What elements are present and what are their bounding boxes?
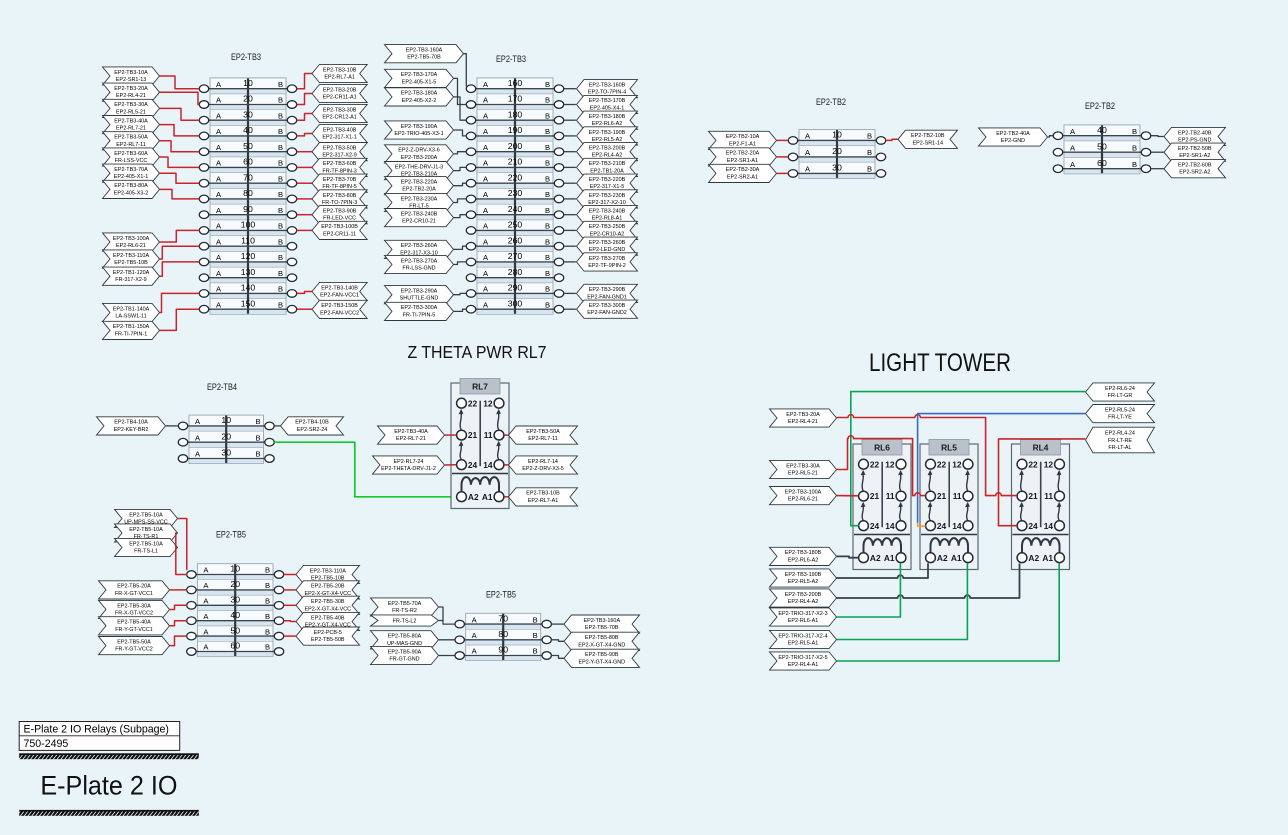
svg-text:EP2-TB5-10A: EP2-TB5-10A — [129, 527, 163, 533]
net label EP2-RL7-14 / EP2-Z-DRV-X3-5 — [509, 456, 578, 474]
relay RL7 contact — [460, 445, 461, 460]
svg-text:24: 24 — [1028, 521, 1038, 531]
svg-text:A2: A2 — [870, 553, 881, 563]
svg-text:E-Plate 2 IO: E-Plate 2 IO — [40, 771, 177, 801]
svg-text:EP2-SR1-A2: EP2-SR1-A2 — [1179, 153, 1210, 159]
wire TB3 row 90B to EP2-TB3-90B — [297, 214, 312, 216]
svg-text:EP2-RL5-21: EP2-RL5-21 — [788, 471, 818, 477]
net label EP2-TB5-80B / EP2-X-GT-X4-GND — [564, 632, 640, 650]
net label FR-TS-L2 — [371, 615, 439, 626]
svg-text:EP2-SR2-A1: EP2-SR2-A1 — [727, 174, 758, 180]
svg-text:EP2-TB3-100A: EP2-TB3-100A — [785, 489, 822, 495]
net label EP2-THE-DRV-J1-3 / EP2-TB3-210A — [385, 162, 454, 180]
wire RL7 pin 14 to EP2-RL7-14 — [504, 464, 508, 466]
relay RL4 pin 11 — [1055, 491, 1065, 501]
svg-text:B: B — [278, 127, 283, 136]
svg-text:RL4: RL4 — [1033, 442, 1049, 452]
net label EP2-TB3-260B / EP2-LED-GND — [577, 237, 638, 255]
svg-text:EP2-FAN-GND1: EP2-FAN-GND1 — [587, 294, 627, 300]
wire EP2-TB3-190B to RL5 coil A2 — [837, 563, 929, 578]
wire TB5 terminal to EP2-TB5-30B — [284, 604, 296, 606]
wire EP2-TB3-160A to TB3 row 160 — [464, 54, 467, 87]
svg-text:EP2-X-GT-X4-GND: EP2-X-GT-X4-GND — [578, 642, 625, 648]
relay RL4 pin 24 — [1017, 521, 1027, 531]
svg-text:EP2-TB3-30A: EP2-TB3-30A — [786, 463, 820, 469]
relay RL7 pin A2 — [457, 492, 467, 502]
svg-text:EP2-CR11-11: EP2-CR11-11 — [323, 231, 356, 237]
svg-text:EP2-RL4-A2: EP2-RL4-A2 — [592, 153, 623, 159]
net label EP2-TB3-30B / EP2-CR12-A1 — [312, 104, 367, 122]
svg-text:EP2-F1-A1: EP2-F1-A1 — [729, 141, 756, 147]
svg-text:EP2-RL6-24: EP2-RL6-24 — [1105, 386, 1135, 392]
wire EP2-TB5-30A to TB5 terminal — [170, 605, 187, 609]
svg-text:160: 160 — [508, 78, 523, 88]
svg-text:EP2-TB5-90B: EP2-TB5-90B — [585, 652, 619, 658]
svg-text:14: 14 — [885, 521, 895, 531]
relay RL6 pin A2 — [859, 553, 869, 563]
svg-text:10: 10 — [243, 78, 253, 88]
svg-text:EP2-RL6-A2: EP2-RL6-A2 — [788, 557, 819, 563]
svg-text:EP2-TB2-10B: EP2-TB2-10B — [911, 133, 945, 139]
relay RL4 header label — [1021, 440, 1061, 456]
svg-text:EP2-405-X1-5: EP2-405-X1-5 — [402, 79, 436, 85]
svg-text:EP2-SR1-A1: EP2-SR1-A1 — [727, 158, 758, 164]
svg-text:B: B — [867, 132, 872, 141]
wire TB3 row 270B to EP2-TB3-270B — [564, 261, 576, 263]
wire EP2-TRIO-317-X2-3 to RL6 coil A1 (green) — [837, 563, 901, 617]
svg-text:B: B — [867, 148, 872, 157]
relay RL7 body — [451, 383, 509, 509]
svg-text:EP2-RL7-A1: EP2-RL7-A1 — [528, 498, 559, 504]
svg-text:EP2-SR2-A2: EP2-SR2-A2 — [1179, 170, 1210, 176]
svg-text:EP2-RL4-24: EP2-RL4-24 — [1105, 431, 1135, 437]
net label EP2-TB3-10A / EP2-SR1-13 — [103, 67, 160, 85]
wire EP2-TB3-260A to TB3 row 260 — [454, 246, 467, 249]
net label EP2-TB1-120A / FR-317-X2-9 — [103, 267, 160, 285]
relay RL7 pin A1 — [494, 492, 504, 502]
svg-text:10: 10 — [832, 130, 842, 140]
wire EP2-THE-DRV-J1-3 to TB3 row 210 — [454, 167, 467, 170]
svg-text:EP2-TB3-270A: EP2-TB3-270A — [401, 258, 438, 264]
wire FR-TS-L2 joins TB5 row 70 wire — [439, 620, 443, 622]
wire EP2-TB5-10A/FR-TS-R1 to TB5 row 10 — [176, 533, 187, 575]
svg-text:EP2-TB5-20B: EP2-TB5-20B — [311, 584, 345, 590]
net label EP2-TB3-230B / EP2-317-X2-10 — [577, 190, 638, 208]
svg-text:EP2-TB3-10A: EP2-TB3-10A — [114, 70, 148, 76]
relay RL7 pin 11 — [494, 430, 504, 440]
svg-text:40: 40 — [243, 125, 253, 135]
relay RL5 pin A1 — [963, 553, 973, 563]
svg-text:240: 240 — [508, 204, 523, 214]
svg-text:EP2-TB3-50B: EP2-TB3-50B — [323, 146, 357, 152]
svg-text:B: B — [278, 237, 283, 246]
relay RL4 contact — [1058, 474, 1059, 492]
svg-text:EP2-RL4-21: EP2-RL4-21 — [116, 93, 146, 99]
svg-text:EP2-RL7-A1: EP2-RL7-A1 — [324, 75, 355, 81]
svg-text:EP2-TB3-80A: EP2-TB3-80A — [114, 183, 148, 189]
svg-text:EP2-TB3-190B: EP2-TB3-190B — [589, 130, 626, 136]
wire EP2-TB4-10A to TB4 row 10 — [166, 425, 179, 427]
svg-text:12: 12 — [952, 459, 962, 469]
svg-text:EP2-TB3-70A: EP2-TB3-70A — [114, 167, 148, 173]
relay RL6 contact — [862, 474, 863, 492]
relay RL7 coil — [462, 477, 500, 492]
svg-text:B: B — [545, 253, 550, 262]
svg-text:E-Plate 2 IO Relays (Subpage): E-Plate 2 IO Relays (Subpage) — [24, 724, 169, 736]
net label EP2-Z-DRV-X3-6 / EP2-TB3-200A — [385, 145, 454, 163]
wire TB3 row 140B to EP2-TB3-140B — [297, 292, 312, 294]
svg-text:EP2-CR10-A2: EP2-CR10-A2 — [590, 231, 624, 237]
wire EP2-TB3-300A to TB3 row 300 — [454, 309, 467, 311]
svg-text:B: B — [278, 253, 283, 262]
svg-text:21: 21 — [1028, 491, 1038, 501]
svg-text:EP2-THE-DRV-J1-3: EP2-THE-DRV-J1-3 — [395, 164, 443, 170]
svg-text:B: B — [255, 417, 260, 426]
svg-text:230: 230 — [508, 188, 523, 198]
svg-text:EP2-TB3-260A: EP2-TB3-260A — [401, 243, 438, 249]
net label EP2-TB5-70A / FR-TS-R2 — [371, 598, 439, 616]
svg-text:B: B — [1132, 143, 1137, 152]
svg-text:EP2-TRIO-405-X3-1: EP2-TRIO-405-X3-1 — [394, 131, 443, 137]
net label EP2-TB5-30B / EP2-X-GT-X4-VCC — [296, 596, 360, 614]
svg-text:A1: A1 — [482, 492, 493, 502]
relay RL5 pin 11 — [963, 491, 973, 501]
relay RL4 column divider — [1040, 462, 1042, 528]
svg-text:EP2-405-X4-1: EP2-405-X4-1 — [590, 106, 624, 112]
net label EP2-TB2-10A / EP2-F1-A1 — [709, 131, 777, 149]
svg-text:RL7: RL7 — [472, 381, 488, 391]
svg-text:B: B — [533, 615, 538, 624]
svg-text:21: 21 — [937, 491, 947, 501]
svg-text:EP2-TB3-150B: EP2-TB3-150B — [321, 303, 358, 309]
svg-text:50: 50 — [243, 141, 253, 151]
svg-text:EP2-TB3-290A: EP2-TB3-290A — [401, 289, 438, 295]
wire TB3 row 300B to EP2-TB3-300B — [564, 308, 576, 310]
svg-text:EP2-TB3-90B: EP2-TB3-90B — [323, 209, 357, 215]
svg-text:EP2-TB3-180B: EP2-TB3-180B — [785, 550, 822, 556]
svg-text:FR-TI-7PIN-1: FR-TI-7PIN-1 — [115, 331, 148, 337]
relay RL6 pin 11 — [896, 491, 906, 501]
svg-text:EP2-TRIO-317-X2-4: EP2-TRIO-317-X2-4 — [778, 633, 827, 639]
net label EP2-TB3-80B / FR-TO-7PIN-3 — [312, 190, 367, 208]
svg-text:EP2-RL6-A2: EP2-RL6-A2 — [592, 121, 623, 127]
svg-text:70: 70 — [243, 172, 253, 182]
svg-text:FR-TI-7PIN-5: FR-TI-7PIN-5 — [403, 312, 436, 318]
net label EP2-TB2-40A / EP2-GND — [979, 128, 1048, 146]
svg-text:EP2-TB3-200B: EP2-TB3-200B — [589, 146, 626, 152]
relay RL7 — [451, 379, 509, 509]
net label EP2-TRIO-317-X2-4 / EP2-RL5-A1 — [770, 630, 837, 648]
wire RL7 pin A1 to EP2-TB3-10B — [504, 496, 508, 498]
svg-text:20: 20 — [230, 579, 240, 589]
net label EP2-TB3-20A / EP2-RL4-21 — [770, 409, 837, 427]
svg-text:EP2-TB3-260B: EP2-TB3-260B — [589, 240, 626, 246]
net label EP2-TB3-250B / EP2-CR10-A2 — [577, 221, 638, 239]
net label EP2-TB3-30A / EP2-RL5-21 — [770, 460, 837, 478]
svg-text:B: B — [545, 80, 550, 89]
svg-text:EP2-TB3-230A: EP2-TB3-230A — [401, 196, 438, 202]
svg-text:EP2-TF-9PIN-2: EP2-TF-9PIN-2 — [588, 263, 625, 269]
svg-text:A1: A1 — [951, 553, 962, 563]
wire TB5 terminal to EP2-TB3-160A — [552, 623, 564, 625]
svg-text:EP2-TB3-210B: EP2-TB3-210B — [589, 161, 626, 167]
relay RL7 contact — [498, 413, 499, 431]
svg-text:22: 22 — [468, 398, 478, 408]
svg-text:11: 11 — [886, 491, 895, 501]
net label EP2-TB3-90B / FR-LED-VCC — [312, 206, 367, 224]
net label EP2-TB3-100B / EP2-CR11-11 — [312, 221, 367, 239]
svg-text:EP2-SR1-13: EP2-SR1-13 — [116, 77, 147, 83]
svg-text:12: 12 — [483, 398, 493, 408]
svg-text:21: 21 — [870, 491, 880, 501]
svg-text:EP2-CR11-A1: EP2-CR11-A1 — [323, 95, 357, 101]
svg-text:12: 12 — [1044, 459, 1054, 469]
svg-text:EP2-RL8-A1: EP2-RL8-A1 — [592, 216, 623, 222]
relay RL4 pin A1 — [1055, 553, 1065, 563]
svg-text:EP2-FAN-VCC1: EP2-FAN-VCC1 — [320, 293, 359, 299]
relay RL6 pin 24 — [859, 521, 869, 531]
relay RL6 pin 14 — [896, 521, 906, 531]
wire TB3 row 10B to EP2-TB3-10B — [297, 74, 312, 89]
terminal block EP2-TB3 #1 (rows 10-150) — [199, 78, 296, 315]
svg-text:EP2-GND: EP2-GND — [1001, 138, 1025, 144]
svg-text:EP2-Z-DRV-X3-6: EP2-Z-DRV-X3-6 — [398, 148, 440, 154]
svg-text:EP2-TB5-70B: EP2-TB5-70B — [585, 625, 619, 631]
svg-text:FR-TS-L1: FR-TS-L1 — [134, 549, 158, 555]
svg-text:EP2-TB3-300B: EP2-TB3-300B — [589, 303, 626, 309]
wire EP2-TB3-290A to TB3 row 290 — [454, 293, 467, 294]
svg-text:EP2-TB4: EP2-TB4 — [207, 382, 238, 393]
svg-text:FR-LT-AL: FR-LT-AL — [1108, 445, 1131, 451]
relay RL7 pin 24 — [457, 460, 467, 470]
svg-text:24: 24 — [468, 460, 478, 470]
svg-text:EP2-TB3-160B: EP2-TB3-160B — [589, 83, 626, 89]
svg-text:EP2-SR2-24: EP2-SR2-24 — [297, 427, 328, 433]
net label EP2-TB3-50B / EP2-317-X2-9 — [312, 143, 367, 161]
svg-text:EP2-TB3-40B: EP2-TB3-40B — [323, 127, 357, 133]
wire EP2-TB3-230A to TB3 row 230 — [454, 199, 467, 203]
svg-text:EP2-TB3-110A: EP2-TB3-110A — [310, 568, 347, 574]
svg-text:RL5: RL5 — [941, 442, 957, 452]
wire TB2 row 60B to EP2-TB2-60B — [1151, 168, 1164, 170]
wire EP2-TB3-60A to terminal — [160, 157, 200, 167]
svg-text:EP2-TB3-50A: EP2-TB3-50A — [526, 429, 560, 435]
relay RL6 contact — [862, 506, 863, 521]
wire TB5 terminal to EP2-PCB-5 — [284, 635, 296, 637]
svg-text:30: 30 — [832, 163, 842, 173]
svg-text:B: B — [545, 285, 550, 294]
svg-text:EP2-405-X2-2: EP2-405-X2-2 — [402, 98, 436, 104]
svg-text:B: B — [255, 433, 260, 442]
svg-text:EP2-RL7-11: EP2-RL7-11 — [116, 142, 146, 148]
svg-text:EP2-KEY-BR2: EP2-KEY-BR2 — [114, 427, 149, 433]
svg-text:EP2-TB3-160A: EP2-TB3-160A — [584, 618, 621, 624]
svg-text:B: B — [278, 80, 283, 89]
wire EP2-TB3-240B to TB3 row 240 — [454, 215, 467, 218]
svg-text:B: B — [278, 300, 283, 309]
net label EP2-TB3-30A / EP2-RL5-21 — [103, 99, 160, 117]
wire TB5 terminal to EP2-TB5-20B — [284, 589, 296, 591]
svg-text:B: B — [265, 566, 270, 575]
svg-text:280: 280 — [508, 267, 523, 277]
svg-text:EP2-TB2-40B: EP2-TB2-40B — [1178, 130, 1212, 136]
net label EP2-TB3-60A / FR-LSS-VCC — [103, 148, 160, 166]
svg-text:FR-TO-7PIN-3: FR-TO-7PIN-3 — [322, 200, 357, 206]
svg-text:130: 130 — [241, 267, 256, 277]
wire TB3 row 180B to EP2-TB3-180B — [564, 119, 576, 121]
svg-text:B: B — [278, 143, 283, 152]
wire TB3 row 200B to EP2-TB3-200B — [564, 151, 576, 153]
wire EP2-TB5-40A to TB5 terminal — [170, 621, 187, 626]
svg-text:A2: A2 — [1028, 553, 1039, 563]
wire EP2-TB1-150A to terminal — [160, 309, 200, 330]
relay RL5 coil separator — [921, 534, 977, 536]
relay RL4 coil — [1022, 538, 1060, 553]
svg-text:EP2-TB2-50B: EP2-TB2-50B — [1178, 146, 1212, 152]
svg-text:FR-GT-GND: FR-GT-GND — [389, 657, 419, 663]
wire TB3 row 150B to EP2-TB3-150B — [297, 308, 312, 310]
svg-text:30: 30 — [243, 109, 253, 119]
wire EP2-TB3-50A to terminal — [160, 141, 200, 152]
svg-text:EP2-TB5-10A: EP2-TB5-10A — [129, 541, 163, 547]
svg-text:EP2-TB5-80A: EP2-TB5-80A — [388, 634, 422, 640]
svg-text:FR-LSS-VCC: FR-LSS-VCC — [115, 158, 148, 164]
svg-text:EP2-TRIO-317-X2-3: EP2-TRIO-317-X2-3 — [778, 611, 827, 617]
svg-text:FR-LSS-GND: FR-LSS-GND — [402, 266, 435, 272]
wire EP2-RL7-24 to RL7 pin 24 — [445, 464, 456, 466]
net label EP2-TB3-150B / EP2-FAN-VCC2 — [312, 300, 367, 318]
wire EP2-TB3-30A to RL5 pin 21 — [837, 436, 926, 496]
svg-text:21: 21 — [468, 430, 478, 440]
svg-text:750-2495: 750-2495 — [24, 738, 69, 750]
wire TB3 row 220B to EP2-TB3-220B — [564, 182, 576, 184]
svg-text:B: B — [545, 127, 550, 136]
svg-text:EP2-RL7-21: EP2-RL7-21 — [116, 126, 146, 132]
svg-text:EP2-TB1-120A: EP2-TB1-120A — [113, 270, 150, 276]
svg-text:B: B — [545, 237, 550, 246]
svg-text:FR-Y-GT-VCC2: FR-Y-GT-VCC2 — [115, 647, 153, 653]
net label EP2-TB5-50A / FR-Y-GT-VCC2 — [99, 637, 170, 655]
relay RL4 contact — [1021, 506, 1022, 521]
svg-text:11: 11 — [953, 491, 962, 501]
wire TB2 row 10B to EP2-TB2-10B — [886, 139, 898, 140]
net label EP2-TB3-270A / FR-LSS-GND — [385, 255, 454, 273]
svg-text:22: 22 — [870, 459, 880, 469]
svg-text:B: B — [278, 96, 283, 105]
relay RL5 pin A2 — [926, 553, 936, 563]
net label EP2-TB3-180B / EP2-RL6-A2 — [577, 111, 638, 129]
net label EP2-TB5-20B / EP2-X-GT-X4-VCC — [296, 581, 360, 599]
net label EP2-TB5-90A / FR-GT-GND — [371, 646, 439, 664]
net label EP2-TB2-50B / EP2-SR1-A2 — [1164, 143, 1226, 161]
svg-text:B: B — [265, 643, 270, 652]
svg-text:EP2-TB2-10A: EP2-TB2-10A — [726, 134, 760, 140]
svg-text:170: 170 — [508, 94, 523, 104]
svg-text:EP2-CR12-A1: EP2-CR12-A1 — [322, 115, 356, 121]
svg-text:EP2-317-X2-9: EP2-317-X2-9 — [322, 153, 356, 159]
svg-text:190: 190 — [508, 125, 523, 135]
svg-text:B: B — [545, 269, 550, 278]
relay RL5 pin 14 — [963, 521, 973, 531]
svg-text:100: 100 — [241, 220, 256, 230]
relay RL5 column divider — [948, 462, 950, 528]
svg-text:B: B — [545, 190, 550, 199]
svg-text:30: 30 — [230, 595, 240, 605]
svg-text:EP2-TB5-80B: EP2-TB5-80B — [585, 635, 619, 641]
net label EP2-RL7-24 / EP2-THETA-DRV-J1-2 — [373, 456, 445, 474]
net label EP2-TB3-200B / EP2-RL4-A2 — [577, 143, 638, 161]
wire TB5 terminal to EP2-TB5-90B — [552, 656, 564, 659]
svg-text:FR-X-GT-VCC1: FR-X-GT-VCC1 — [115, 591, 153, 597]
net label EP2-TB3-190B / EP2-RL5-A2 — [770, 569, 837, 587]
svg-text:14: 14 — [952, 521, 962, 531]
net label EP2-TB2-10B / EP2-SR1-14 — [898, 130, 958, 148]
svg-text:50: 50 — [230, 625, 240, 635]
svg-text:EP2-TB2: EP2-TB2 — [816, 97, 846, 108]
net label EP2-TB3-40A / EP2-RL7-21 — [103, 116, 160, 134]
svg-text:260: 260 — [508, 235, 523, 245]
svg-text:EP2-TB1-140A: EP2-TB1-140A — [113, 306, 150, 312]
svg-text:EP2-TB2-30A: EP2-TB2-30A — [726, 167, 760, 173]
net label EP2-TB3-190B / EP2-RL5-A2 — [577, 127, 638, 145]
svg-text:11: 11 — [484, 430, 493, 440]
svg-text:EP2-FAN-GND2: EP2-FAN-GND2 — [587, 310, 627, 316]
wire TB4 row 20B to RL7 coil A2 (green) — [274, 442, 456, 497]
relay RL4 coil separator — [1013, 534, 1069, 536]
wire RL6 pin 24 to EP2-RL6-24 (green) — [851, 392, 1085, 526]
svg-text:EP2-TB1-20A: EP2-TB1-20A — [590, 168, 624, 174]
svg-text:80: 80 — [498, 629, 508, 639]
terminal block EP2-TB2 #2 (rows 40-60) — [1053, 125, 1150, 174]
net label EP2-RL5-24 / FR-LT-YE — [1086, 405, 1155, 423]
net label EP2-TB3-160B / EP2-TO-7PIN-4 — [577, 80, 638, 98]
net label EP2-TB3-60B / FR-TF-8PIN-3 — [312, 158, 367, 176]
terminal block EP2-TB2 #1 (rows 10-30) — [788, 130, 885, 179]
net label EP2-TB3-170B / EP2-405-X4-1 — [577, 95, 638, 113]
svg-text:EP2-PCB-5: EP2-PCB-5 — [314, 630, 342, 636]
svg-text:60: 60 — [1097, 158, 1107, 168]
svg-text:FR-TS-L2: FR-TS-L2 — [393, 619, 417, 625]
wire EP2-TB5-90A to TB5 row 90 — [439, 655, 455, 657]
net label EP2-TB2-60B / EP2-SR2-A2 — [1164, 160, 1226, 178]
svg-text:EP2-405-X3-2: EP2-405-X3-2 — [114, 190, 148, 196]
svg-text:B: B — [533, 647, 538, 656]
svg-text:FR-TS-R2: FR-TS-R2 — [392, 608, 417, 614]
net label EP2-TB3-50A / EP2-RL7-11 — [103, 132, 160, 150]
relay RL5 — [920, 440, 978, 570]
svg-text:24: 24 — [870, 521, 880, 531]
wire EP2-TB3-20A to RL4 pin 21 — [837, 415, 1017, 496]
svg-text:B: B — [278, 222, 283, 231]
wire TB3 row 40B to EP2-TB3-40B — [297, 134, 312, 136]
svg-text:A1: A1 — [884, 553, 895, 563]
net label EP2-TB3-210B / EP2-TB1-20A — [577, 158, 638, 176]
svg-text:EP2-317-X1-5: EP2-317-X1-5 — [590, 184, 624, 190]
wire EP2-TB3-30A to terminal — [160, 108, 200, 120]
net label EP2-TB3-260A / EP2-317-X3-10 — [385, 240, 454, 258]
net label EP2-TB1-140A / LA-SSW1-11 — [103, 303, 160, 321]
net label EP2-TB4-10A / EP2-KEY-BR2 — [97, 417, 166, 435]
net label EP2-TB5-10A / FR-TS-L1 — [115, 538, 178, 556]
relay RL6 pin 22 — [859, 459, 869, 469]
net label EP2-TB2-30A / EP2-SR2-A1 — [709, 164, 777, 182]
svg-text:SHUTTLE-GND: SHUTTLE-GND — [400, 296, 439, 302]
svg-text:EP2-TB3-200B: EP2-TB3-200B — [785, 592, 822, 598]
svg-text:EP2-405-X1-1: EP2-405-X1-1 — [114, 174, 148, 180]
net label EP2-TRIO-317-X2-5 / EP2-RL4-A1 — [770, 652, 837, 670]
net label EP2-TB3-70A / EP2-405-X1-1 — [103, 164, 160, 182]
svg-text:EP2-TB1-150A: EP2-TB1-150A — [113, 324, 150, 330]
